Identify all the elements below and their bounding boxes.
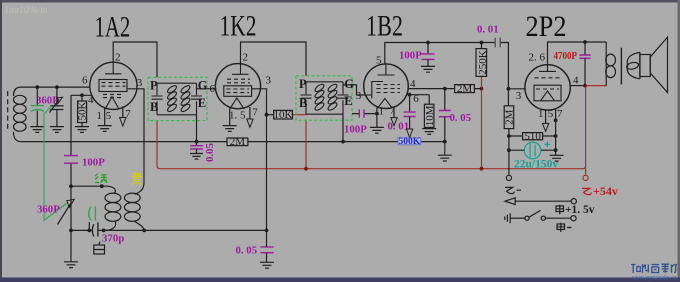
filament switch with chassis ground: [505, 210, 576, 223]
junction dot tank top: [100, 184, 104, 188]
wire 1B2 pin1 to ground: [376, 108, 378, 128]
ground under 360P: [30, 127, 44, 133]
IFT2 windings: [314, 83, 338, 112]
svg-text:250K: 250K: [477, 50, 489, 75]
IF transformer T2 (green dashed box): [296, 76, 352, 120]
variable capacitor 360P (antenna section): [31, 87, 44, 126]
node dot trimmer top: [55, 85, 59, 89]
junction dot pin6/0.01: [408, 93, 412, 97]
svg-text:100P: 100P: [82, 156, 105, 168]
terminal circle B-: [506, 175, 511, 180]
wire 1A2 pins 1,5 to ground: [104, 108, 106, 126]
svg-text:2P2: 2P2: [526, 10, 567, 43]
svg-text:+54v: +54v: [593, 184, 618, 198]
svg-text:1A2: 1A2: [95, 10, 131, 43]
capacitor 4700P: [579, 42, 590, 86]
wire 1B2 pin4 node: [408, 88, 481, 90]
wire 1A2 plate pin2 to IFT1 P: [113, 42, 157, 77]
resistor 10K: [267, 110, 293, 119]
plus sign 22u: [545, 142, 551, 148]
resistor 50K: [78, 95, 87, 126]
wire 22u leads: [509, 149, 556, 151]
tube V2 internals: [224, 64, 252, 109]
tube V2 1K2 envelope: [215, 64, 260, 109]
junction dot plate rail/250K: [480, 41, 484, 45]
junction dot 370p left: [87, 229, 91, 233]
arrow filament supply (1A2 pin7): [120, 118, 126, 127]
wire 1K2 pins 1,5 to ground: [229, 108, 231, 125]
svg-text:360P: 360P: [37, 204, 60, 216]
capacitor 0.05 (detector bottom): [260, 230, 274, 268]
svg-text:5: 5: [106, 110, 112, 122]
output transformer secondary: [626, 52, 640, 78]
output transformer core: [620, 48, 622, 85]
svg-text:4700P: 4700P: [554, 50, 578, 62]
IFT1 primary tuned circuit (P/B): [152, 83, 197, 115]
wire 2P2 pins 1,5: [545, 110, 547, 123]
common ground rail (right section, 500K to 0.05 ground): [421, 141, 445, 143]
resistor 10M: [424, 95, 434, 129]
svg-text:2M: 2M: [457, 83, 473, 95]
junction dot grid node: [507, 87, 511, 91]
wire red 2P2 pin4 to output transformer: [585, 85, 606, 87]
node dot rail/IFT2-E: [341, 140, 345, 144]
antenna coil L1: [13, 95, 26, 131]
svg-text:G: G: [198, 79, 208, 93]
arrow filament supply (1K2 pin7): [247, 119, 253, 127]
junction dot plate rail/100P: [426, 41, 430, 45]
svg-text:2: 2: [115, 52, 121, 64]
tube V3 1B2 envelope: [364, 64, 409, 109]
wire 1K2 plate pin2 to IFT2 P: [241, 42, 307, 76]
wire 1K2 pin7: [249, 107, 251, 119]
ground under trimmer: [50, 127, 64, 133]
svg-text:E: E: [344, 94, 352, 108]
wire 1B2 plate pin5 rail with 0.01 coupling to 2P2: [385, 43, 509, 89]
svg-text:1: 1: [538, 108, 544, 120]
svg-text:3: 3: [516, 90, 522, 102]
junction dot osc coil bottom: [142, 229, 146, 233]
svg-text:3: 3: [356, 90, 362, 102]
bottom-right watermark logo (crystal radio): [631, 264, 677, 273]
arrow filament supply (1B2 pin7): [391, 118, 397, 126]
ground under 1K2 pins 1,5: [223, 126, 237, 132]
svg-text:2: 2: [243, 52, 249, 64]
junction dot red 2P2 pin4 node: [583, 84, 587, 88]
terminal stub B+: [585, 169, 587, 176]
svg-text:1: 1: [379, 106, 385, 118]
svg-text:B: B: [299, 96, 307, 110]
svg-text:510: 510: [524, 130, 541, 142]
A battery arrow line: [505, 198, 576, 205]
junction dot 370p right: [102, 229, 106, 233]
IFT1 windings: [166, 84, 191, 113]
tube V4 2P2 envelope: [525, 65, 570, 110]
speaker: [640, 37, 668, 92]
wire 1A2 pin7: [122, 106, 124, 117]
ground under 1A2 pins 1,5: [98, 126, 112, 132]
IFT2 primary tuned circuit (P/B): [301, 82, 344, 114]
junction dot osc grid node: [69, 184, 73, 188]
tube V1 1A2 envelope: [90, 62, 137, 109]
svg-text:500K: 500K: [398, 137, 420, 147]
wire IFT2-G to 1B2 pin3: [343, 85, 364, 95]
common ground rail (middle section, 2M to 500K): [248, 141, 398, 143]
svg-text:100P: 100P: [344, 124, 367, 136]
resistor 2M (2P2 grid leak): [504, 89, 514, 176]
border frame right: [678, 0, 680, 282]
svg-text:370p: 370p: [102, 233, 124, 245]
red B+ rail from IFT1-B across bottom and up to 2P2 plate: [157, 86, 586, 169]
antenna coil ferrite core (dashed): [7, 91, 9, 130]
node dot rail end at 0.05: [443, 140, 447, 144]
svg-text:B: B: [150, 100, 158, 114]
wire 2P2 pin7 cathode line: [555, 109, 557, 155]
svg-text:7: 7: [557, 108, 563, 120]
wire red 250K bottom drop: [481, 76, 483, 168]
svg-text:2. 6: 2. 6: [529, 52, 546, 64]
junction dot 4700P top: [583, 40, 587, 44]
resistor 2M (AVC, in ground rail): [227, 138, 248, 146]
tube V3 internals: [364, 64, 400, 108]
wire 1A2 pin3 to oscillator feedback coil: [127, 89, 144, 195]
svg-text:1. 5: 1. 5: [229, 110, 246, 122]
wire 2P2 pin3 grid: [508, 88, 525, 90]
variable capacitor 360P (oscillator section): [58, 199, 96, 230]
capacitor 100P (oscillator grid): [64, 156, 78, 164]
oscillator coil left winding (green): [105, 186, 121, 230]
IFT2 secondary tuned circuit (G/E): [333, 82, 349, 114]
ground under 10M: [422, 129, 436, 135]
antenna top rail: [14, 87, 90, 95]
tube V1 internals: [99, 62, 127, 109]
oscillator coil right winding (yellow/feedback): [124, 193, 144, 230]
wire osc grid node to tank top: [71, 185, 106, 187]
wire 1A2 pin4: [71, 94, 92, 96]
svg-text:E: E: [198, 96, 206, 110]
label A-: [557, 223, 572, 232]
svg-text:3: 3: [137, 77, 143, 89]
node dot rail/IFT1-E: [195, 140, 199, 144]
wire 2P2 pin4 (black part): [570, 85, 585, 87]
wire red IFT2-B drop: [305, 120, 307, 169]
border frame bottom: [0, 278, 680, 282]
terminal label B-: [505, 187, 521, 193]
svg-text:0. 01: 0. 01: [388, 121, 410, 133]
oscillator tank bottom wire with 370p: [71, 222, 267, 236]
junction dot 22u left: [507, 148, 511, 152]
svg-text:1B2: 1B2: [366, 9, 403, 42]
border frame left: [0, 0, 2, 282]
output transformer primary: [606, 42, 616, 86]
IFT1 secondary tuned circuit (G/E): [185, 83, 216, 115]
wire IFT2-E to ground rail: [342, 114, 344, 141]
label white lead (bai): [94, 242, 105, 254]
ground at rail end: [438, 142, 452, 161]
junction dot pin4/50K: [80, 93, 84, 97]
arrow filament supply (2P2 pins 1,5): [542, 123, 548, 131]
svg-text:1aa10%/m: 1aa10%/m: [4, 5, 47, 16]
ground under 50K: [75, 127, 89, 133]
resistor 250K: [476, 43, 487, 77]
svg-text:P: P: [299, 77, 307, 91]
svg-text:2M: 2M: [503, 109, 515, 125]
junction dot pin3/10K: [265, 113, 269, 117]
wire 2P2 plate pins 2,6 top rail: [548, 42, 607, 65]
wire red 10K to IFT2-B: [292, 114, 306, 116]
label A+1.5v: [556, 205, 564, 215]
node dot 360P top: [35, 85, 39, 89]
label yellow lead (huang): [131, 172, 142, 185]
ground under 2P2 pin7: [550, 155, 564, 161]
svg-text:P: P: [150, 79, 158, 93]
junction dot 510 left: [507, 134, 511, 138]
trimmer capacitor: [50, 87, 64, 126]
svg-text:G: G: [344, 77, 354, 91]
svg-text:4: 4: [573, 75, 579, 87]
capacitor 0.01 (to volume pot wiper): [404, 95, 416, 129]
svg-text:+1. 5v: +1. 5v: [565, 204, 595, 216]
wire osc ground drop: [70, 230, 72, 261]
ground under oscillator: [64, 262, 78, 268]
resistor 510: [509, 133, 556, 140]
svg-text:www.crystalradio.cn: www.crystalradio.cn: [632, 273, 676, 281]
junction dot osc bottom node: [69, 229, 73, 233]
terminal circle B+ 54v: [583, 175, 588, 180]
capacitor 100P (IFT2 to 1B2 grid return): [352, 109, 377, 117]
svg-text:2M: 2M: [230, 136, 246, 148]
ground under 1B2 pin1: [370, 127, 384, 133]
arrow volume pot wiper: [406, 129, 412, 137]
svg-text:6: 6: [210, 83, 216, 95]
svg-text:0.05: 0.05: [204, 143, 216, 162]
junction dot pin4/0.05: [443, 87, 447, 91]
oscillator grid line (pin4 junction down through 100P): [70, 95, 72, 230]
svg-text:7: 7: [390, 105, 396, 117]
svg-text:22u/150v: 22u/150v: [514, 158, 558, 170]
common ground rail (left section, from antenna coil bottom to 2M): [14, 133, 228, 142]
svg-text:1: 1: [97, 110, 103, 122]
svg-text:6: 6: [82, 75, 88, 87]
svg-text:0. 05: 0. 05: [236, 245, 258, 257]
svg-text:100P: 100P: [399, 50, 422, 62]
wire 1K2 pin3 detector line (down to 0.05): [252, 89, 267, 231]
capacitor 100P (1B2 plate bypass): [421, 43, 435, 73]
wire 1B2 pin7: [393, 107, 395, 117]
svg-text:3: 3: [266, 75, 272, 87]
junction dot pin1/100P: [375, 112, 379, 116]
wire 1B2 pin6 node: [406, 94, 429, 96]
IF transformer T1 (green dashed box): [148, 77, 207, 120]
svg-text:10K: 10K: [274, 109, 293, 121]
svg-text:1K2: 1K2: [220, 9, 257, 42]
capacitor 0.01 coupling plates: [495, 38, 500, 47]
capacitor 0.05 (1B2 right): [439, 89, 451, 142]
green tuning gang link wire: [44, 106, 67, 221]
svg-text:10M: 10M: [424, 105, 436, 126]
svg-text:0. 05: 0. 05: [450, 112, 472, 124]
svg-text:7: 7: [252, 107, 258, 119]
border frame top: [0, 0, 680, 3]
tube V4 internals: [534, 65, 561, 101]
junction dots on pin7 line: [554, 118, 558, 122]
wire IFT1-E to ground rail: [196, 115, 198, 142]
junction dot red IFT2-B: [304, 167, 308, 171]
resistor 2M (1B2 plate to B+): [455, 85, 475, 93]
junction dot detector node: [265, 229, 269, 233]
svg-text:5: 5: [548, 108, 554, 120]
svg-text:50K: 50K: [77, 102, 89, 121]
label B+54v red: [582, 188, 591, 194]
svg-text:0. 01: 0. 01: [477, 24, 499, 36]
electrolytic capacitor 22u/150v: [524, 142, 541, 159]
junction dot red 2M to B+: [480, 87, 484, 91]
capacitor 0.05 (IFT1 E bypass): [190, 142, 203, 159]
potentiometer 500K (volume): [398, 137, 421, 147]
junction dot red 250K bottom: [480, 167, 484, 171]
label green lead (lv): [95, 174, 107, 183]
svg-text:5: 5: [376, 55, 382, 67]
